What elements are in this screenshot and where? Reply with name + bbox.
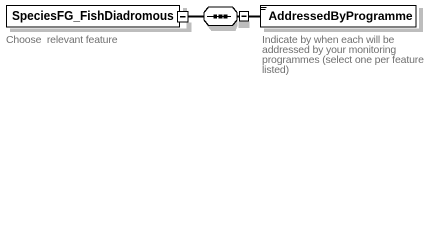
sequence compositor octagon: [204, 7, 237, 26]
expand box 1 (minus) on box1 right edge: [178, 12, 189, 23]
shadow of element box SpeciesFG_FishDiadromous: [183, 8, 187, 13]
element box SpeciesFG_FishDiadromous: [7, 6, 180, 28]
expand box 2 (minus) on sequence right: [240, 12, 249, 22]
wire: box1 to sequence: [180, 16, 204, 18]
label: AddressedByProgramme: [269, 9, 419, 23]
annotation text: Choose relevant feature: [6, 35, 117, 45]
shadow of expand box 2: [239, 22, 250, 29]
sequence inner line with three item squares: [207, 15, 231, 17]
annotation text: Indicate by when each will be addressed: [262, 35, 424, 75]
wire: sequence to box2: [237, 16, 260, 18]
element box AddressedByProgramme: [261, 6, 417, 28]
shadow of element box AddressedByProgramme: [419, 8, 423, 32]
shadow of sequence octagon: [207, 13, 238, 32]
wire: diagram connectors and symbols: [0, 0, 430, 85]
label: SpeciesFG_FishDiadromous: [12, 9, 174, 23]
annotation icon inside box2 top-left: [261, 7, 267, 8]
